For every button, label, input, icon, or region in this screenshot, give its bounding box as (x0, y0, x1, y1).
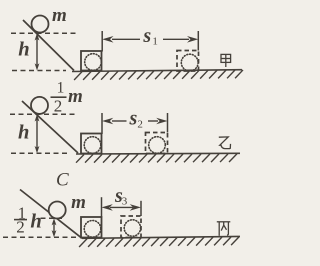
svg-text:h: h (18, 122, 29, 144)
svg-text:1: 1 (57, 80, 65, 97)
svg-text:h: h (18, 39, 29, 61)
svg-text:m: m (71, 192, 86, 213)
svg-text:m: m (68, 86, 83, 107)
svg-text:2: 2 (16, 218, 25, 237)
svg-text:2: 2 (137, 119, 143, 131)
svg-text:m: m (52, 5, 67, 26)
svg-text:h: h (30, 210, 41, 232)
svg-text:s: s (129, 108, 138, 130)
svg-text:2: 2 (54, 96, 63, 115)
svg-text:C: C (56, 170, 69, 191)
svg-text:s: s (142, 25, 151, 47)
svg-text:1: 1 (152, 36, 158, 48)
svg-text:3: 3 (122, 196, 128, 208)
